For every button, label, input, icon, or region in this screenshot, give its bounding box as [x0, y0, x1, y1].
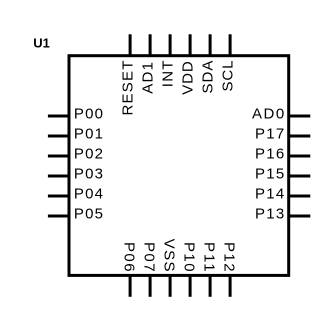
svg-text:P13: P13: [255, 206, 284, 223]
svg-text:P11: P11: [201, 242, 218, 272]
svg-text:P10: P10: [181, 242, 198, 272]
svg-text:U1: U1: [33, 36, 50, 51]
svg-text:P01: P01: [74, 126, 103, 143]
svg-text:P14: P14: [255, 186, 284, 203]
svg-text:P03: P03: [74, 166, 103, 183]
svg-text:SDA: SDA: [200, 61, 217, 94]
svg-text:AD0: AD0: [252, 106, 284, 123]
svg-text:P07: P07: [141, 242, 158, 272]
svg-text:P15: P15: [255, 166, 284, 183]
svg-text:P16: P16: [255, 146, 284, 163]
svg-text:P12: P12: [221, 242, 238, 272]
svg-text:P17: P17: [255, 126, 284, 143]
svg-text:AD1: AD1: [140, 62, 157, 94]
svg-text:P00: P00: [74, 106, 103, 123]
svg-text:P02: P02: [74, 146, 103, 163]
svg-text:VDD: VDD: [180, 61, 197, 95]
svg-text:P05: P05: [74, 206, 103, 223]
svg-text:RESET: RESET: [120, 61, 137, 116]
svg-text:SCL: SCL: [220, 61, 237, 92]
svg-text:P04: P04: [74, 186, 103, 203]
svg-text:VSS: VSS: [161, 239, 178, 272]
svg-text:P06: P06: [121, 242, 138, 272]
svg-text:INT: INT: [160, 61, 177, 88]
